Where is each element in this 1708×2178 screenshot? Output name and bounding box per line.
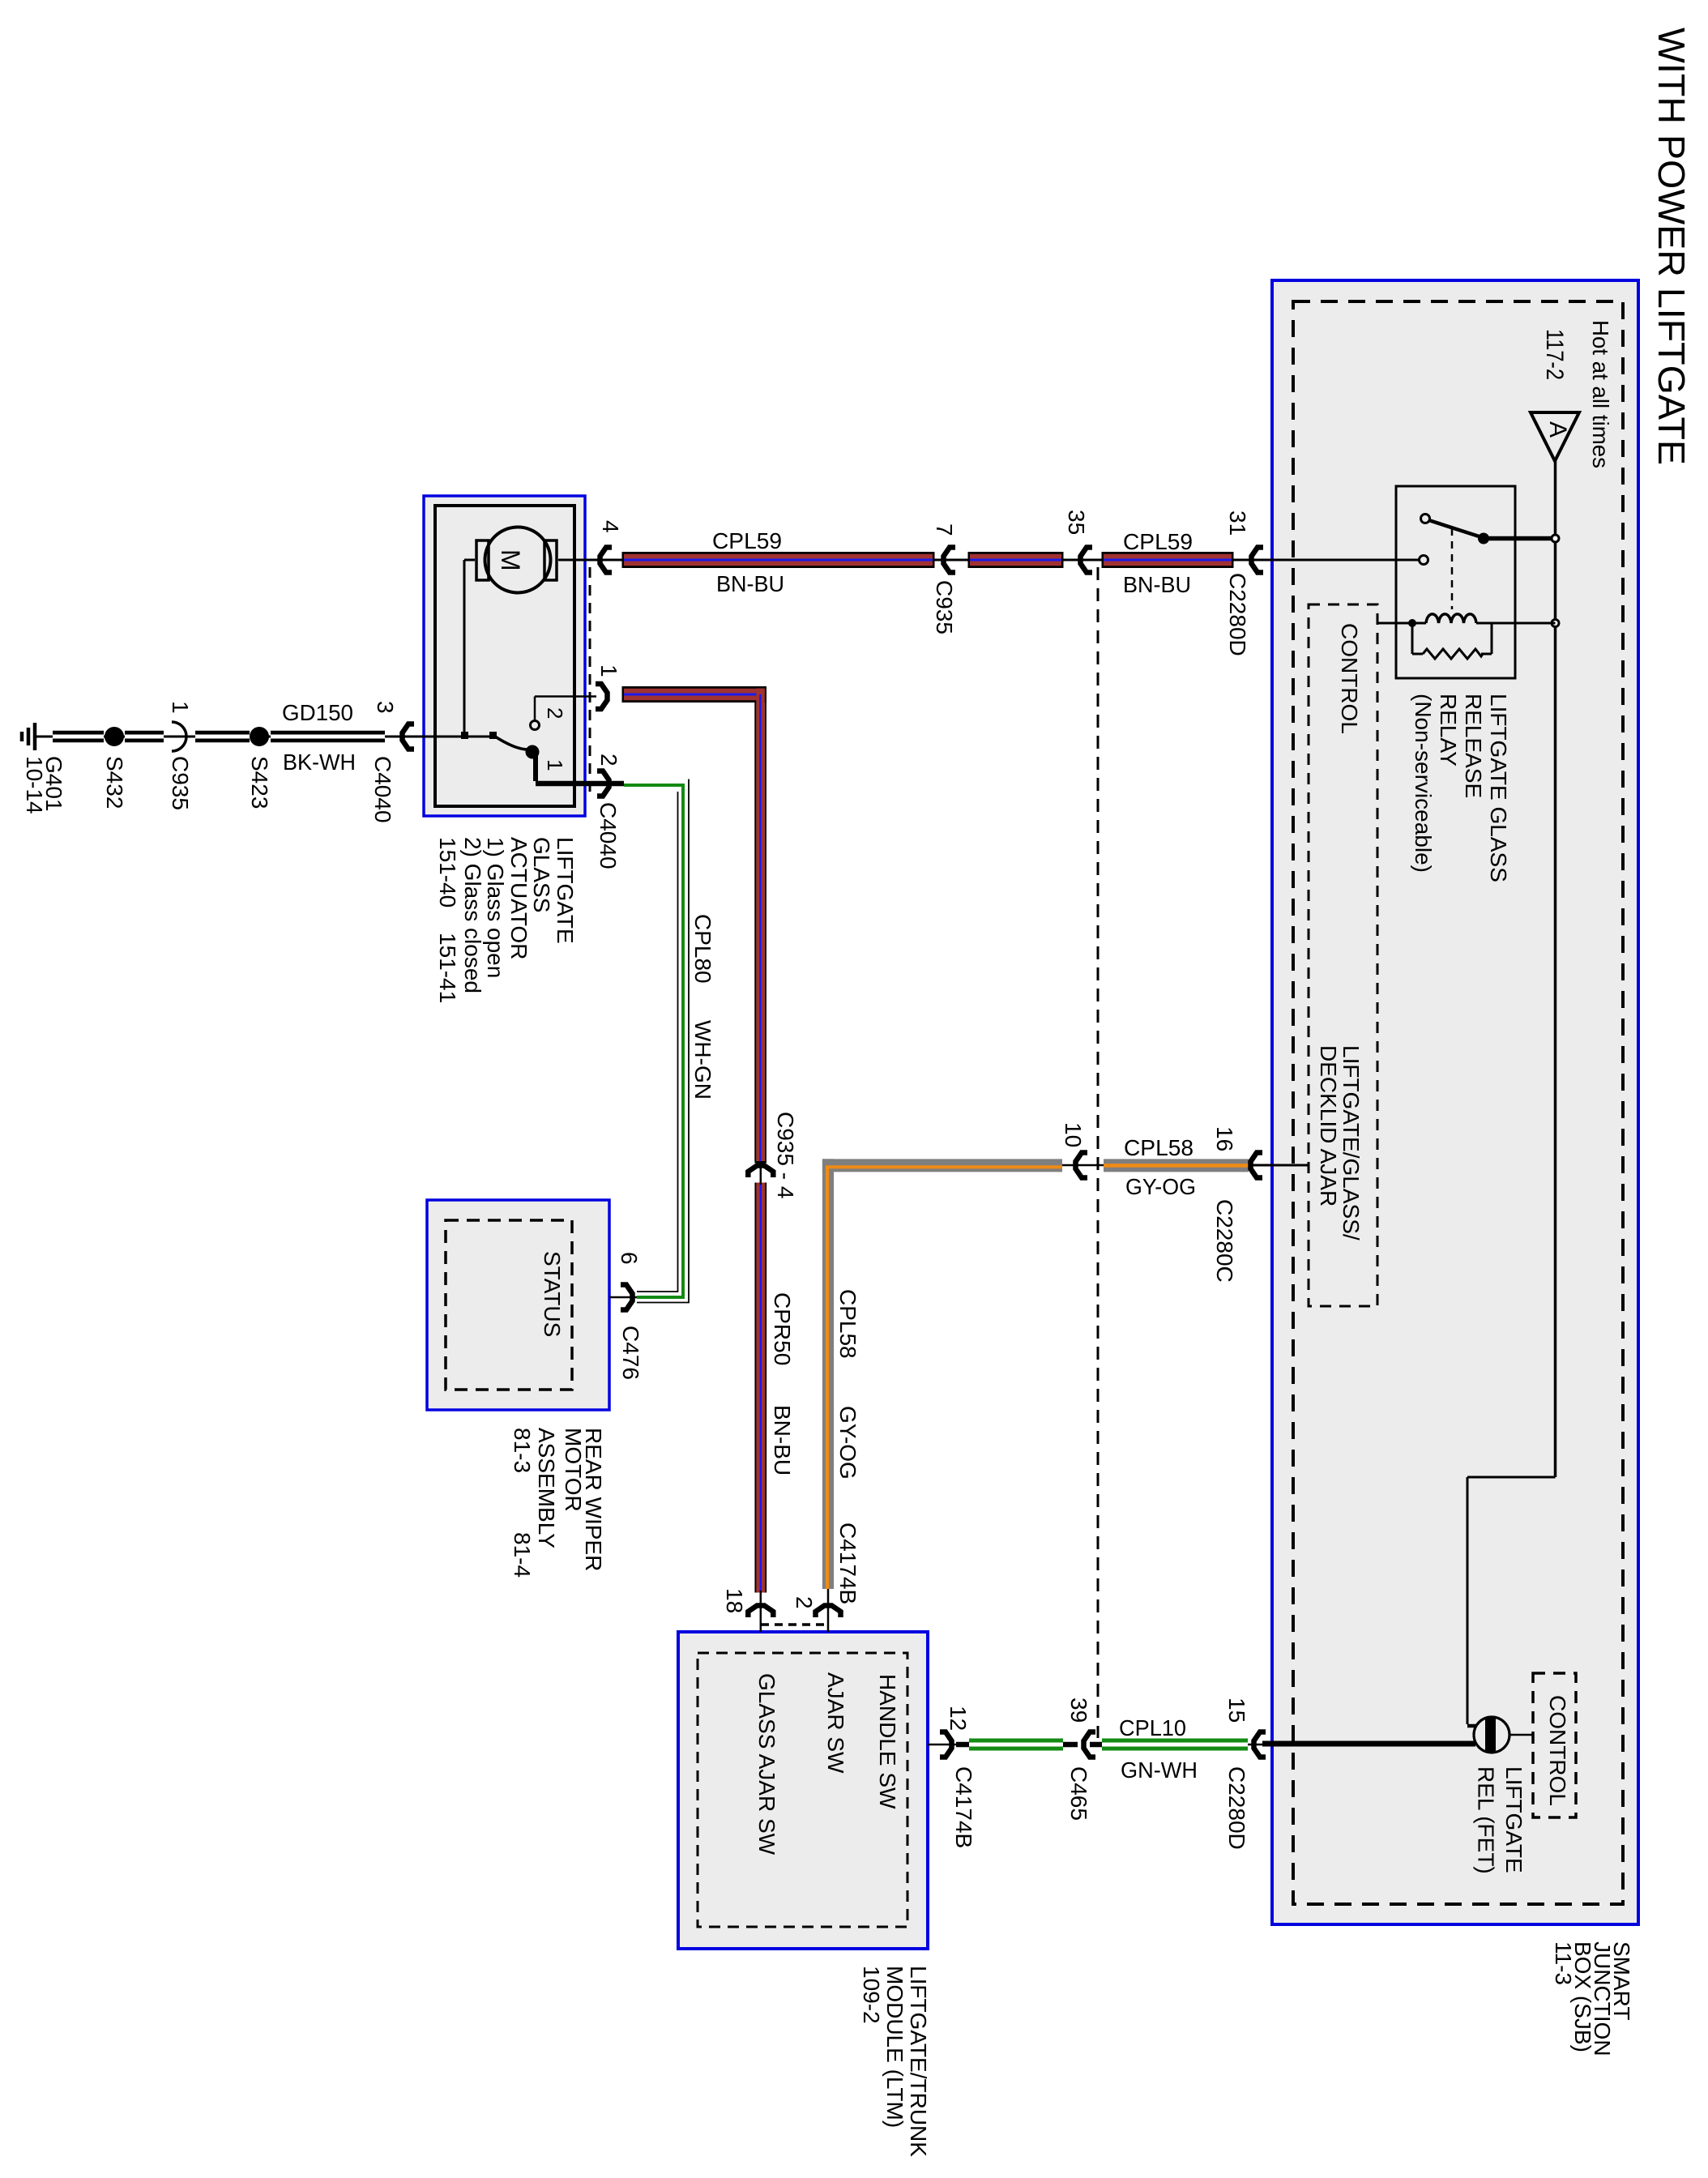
- svg-text:15: 15: [1224, 1698, 1249, 1723]
- svg-text:C4174B: C4174B: [951, 1766, 976, 1848]
- svg-text:BK-WH: BK-WH: [283, 749, 356, 775]
- svg-text:MOTOR: MOTOR: [561, 1428, 586, 1512]
- svg-text:16: 16: [1212, 1126, 1237, 1151]
- svg-text:2) Glass closed: 2) Glass closed: [460, 837, 485, 993]
- svg-text:C4040: C4040: [370, 756, 395, 823]
- svg-text:6: 6: [617, 1252, 642, 1265]
- svg-text:RELAY: RELAY: [1436, 694, 1461, 767]
- svg-text:7: 7: [932, 523, 957, 536]
- svg-text:GLASS AJAR SW: GLASS AJAR SW: [754, 1673, 779, 1856]
- svg-text:Hot at all times: Hot at all times: [1588, 320, 1613, 468]
- svg-text:18: 18: [722, 1588, 747, 1613]
- svg-text:GY-OG: GY-OG: [1125, 1174, 1196, 1199]
- svg-text:1: 1: [596, 664, 621, 677]
- svg-text:C2280D: C2280D: [1224, 1766, 1249, 1850]
- svg-text:S432: S432: [102, 756, 127, 809]
- svg-text:LIFTGATE GLASS: LIFTGATE GLASS: [1486, 694, 1511, 882]
- svg-text:WH-GN: WH-GN: [690, 1020, 715, 1100]
- svg-text:STATUS: STATUS: [540, 1251, 565, 1337]
- svg-text:WITH POWER LIFTGATE: WITH POWER LIFTGATE: [1650, 28, 1693, 465]
- svg-text:CPL59: CPL59: [712, 528, 782, 553]
- svg-text:RELEASE: RELEASE: [1461, 694, 1486, 798]
- svg-text:4: 4: [598, 520, 623, 533]
- svg-text:11-3: 11-3: [1551, 1941, 1576, 1985]
- svg-text:DECKLID AJAR: DECKLID AJAR: [1316, 1045, 1341, 1206]
- svg-text:M: M: [496, 549, 525, 571]
- svg-text:CONTROL: CONTROL: [1545, 1695, 1570, 1806]
- svg-text:1: 1: [543, 759, 567, 771]
- svg-text:3: 3: [373, 701, 398, 714]
- svg-text:39: 39: [1066, 1698, 1091, 1723]
- svg-text:C465: C465: [1066, 1766, 1091, 1821]
- svg-text:C476: C476: [618, 1326, 643, 1380]
- svg-text:LIFTGATE/GLASS/: LIFTGATE/GLASS/: [1339, 1045, 1364, 1241]
- svg-text:ASSEMBLY: ASSEMBLY: [534, 1428, 559, 1548]
- svg-text:CPL59: CPL59: [1123, 529, 1193, 554]
- svg-text:2: 2: [596, 754, 621, 767]
- svg-text:GY-OG: GY-OG: [835, 1406, 860, 1480]
- svg-text:C2280D: C2280D: [1225, 573, 1250, 656]
- svg-text:GD150: GD150: [282, 700, 353, 725]
- svg-text:CPL58: CPL58: [835, 1289, 860, 1359]
- svg-text:10-14: 10-14: [22, 756, 47, 814]
- svg-text:MODULE (LTM): MODULE (LTM): [882, 1966, 907, 2128]
- svg-text:BN-BU: BN-BU: [716, 571, 784, 596]
- svg-text:CPL80: CPL80: [690, 914, 715, 984]
- svg-text:C935: C935: [168, 756, 193, 810]
- svg-text:BN-BU: BN-BU: [1123, 572, 1191, 597]
- svg-text:AJAR SW: AJAR SW: [823, 1672, 848, 1774]
- svg-text:1) Glass open: 1) Glass open: [483, 837, 508, 978]
- svg-text:31: 31: [1225, 510, 1250, 536]
- svg-text:151-40: 151-40: [435, 837, 460, 907]
- svg-text:81-3: 81-3: [510, 1428, 535, 1473]
- svg-text:REL (FET): REL (FET): [1474, 1766, 1499, 1874]
- svg-text:C4040: C4040: [596, 802, 621, 869]
- svg-text:CPL10: CPL10: [1119, 1715, 1186, 1740]
- svg-text:CONTROL: CONTROL: [1337, 623, 1362, 734]
- svg-text:BN-BU: BN-BU: [770, 1405, 795, 1475]
- svg-text:LIFTGATE/TRUNK: LIFTGATE/TRUNK: [906, 1966, 931, 2157]
- svg-text:C935 - 4: C935 - 4: [773, 1112, 798, 1198]
- svg-text:C4174B: C4174B: [835, 1522, 860, 1604]
- svg-text:S423: S423: [247, 756, 272, 809]
- svg-text:12: 12: [946, 1706, 971, 1731]
- svg-text:GN-WH: GN-WH: [1121, 1757, 1198, 1783]
- svg-text:A: A: [1544, 421, 1571, 438]
- svg-text:10: 10: [1061, 1122, 1086, 1147]
- svg-text:81-4: 81-4: [510, 1532, 535, 1578]
- svg-text:109-2: 109-2: [859, 1966, 884, 2024]
- svg-text:35: 35: [1064, 510, 1089, 535]
- svg-text:LIFTGATE: LIFTGATE: [553, 837, 578, 944]
- svg-text:2: 2: [792, 1596, 817, 1609]
- svg-text:151-41: 151-41: [435, 933, 460, 1003]
- svg-text:C2280C: C2280C: [1212, 1199, 1237, 1283]
- svg-text:HANDLE SW: HANDLE SW: [875, 1674, 900, 1809]
- svg-text:2: 2: [543, 707, 567, 719]
- svg-text:GLASS: GLASS: [529, 837, 554, 912]
- svg-text:LIFTGATE: LIFTGATE: [1501, 1766, 1527, 1873]
- svg-text:117-2: 117-2: [1541, 329, 1568, 380]
- svg-text:ACTUATOR: ACTUATOR: [506, 837, 532, 959]
- svg-text:CPL58: CPL58: [1124, 1135, 1193, 1160]
- svg-text:1: 1: [168, 701, 193, 714]
- svg-text:C935: C935: [932, 580, 957, 634]
- svg-text:(Non-serviceable): (Non-serviceable): [1411, 694, 1436, 873]
- svg-text:CPR50: CPR50: [770, 1292, 795, 1365]
